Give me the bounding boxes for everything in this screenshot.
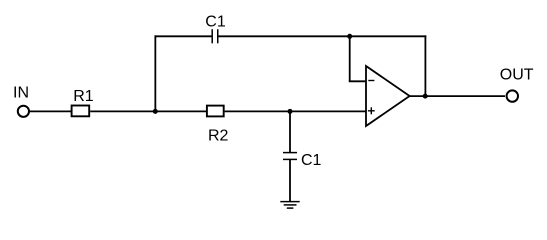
op-amp U1 triangle	[366, 66, 410, 126]
resistor R2	[207, 106, 224, 117]
junction node B	[288, 109, 293, 114]
svg-text:IN: IN	[13, 85, 29, 102]
wire feedback right vertical (output to top row)	[424, 35, 426, 96]
wire node A up to top feedback row	[154, 35, 156, 112]
wire to op-amp minus input	[349, 80, 366, 82]
wire tap down toward inverting input	[349, 36, 351, 81]
wire node B down to C1	[289, 111, 291, 152]
svg-text:R1: R1	[73, 88, 94, 105]
ground symbol	[280, 201, 299, 203]
svg-text:C1: C1	[301, 152, 322, 169]
wire top row left segment to C1	[155, 35, 212, 37]
capacitor C1 (shunt) top plate	[283, 152, 297, 154]
op-amp plus sign	[368, 110, 375, 112]
wire R2 to op-amp plus input	[225, 110, 366, 112]
port IN terminal circle	[18, 106, 29, 117]
wire IN to R1	[30, 110, 71, 112]
wire C1 to ground	[289, 160, 291, 202]
capacitor C1 (feedback) right plate	[217, 29, 219, 43]
resistor R1	[72, 106, 90, 117]
wire R1 to node A	[90, 110, 206, 112]
junction output node	[423, 94, 428, 99]
svg-text:R2: R2	[208, 128, 229, 145]
op-amp minus sign	[368, 80, 374, 82]
capacitor C1 (shunt) bottom plate	[283, 158, 297, 160]
port OUT terminal circle	[507, 90, 518, 101]
junction top tap node	[347, 34, 352, 39]
junction node A	[153, 109, 158, 114]
svg-text:C1: C1	[205, 14, 226, 31]
capacitor C1 (feedback) left plate	[211, 29, 213, 43]
svg-text:OUT: OUT	[500, 67, 534, 84]
wire C1 to top-right corner	[219, 35, 427, 37]
wire op-amp output to OUT	[410, 95, 505, 97]
